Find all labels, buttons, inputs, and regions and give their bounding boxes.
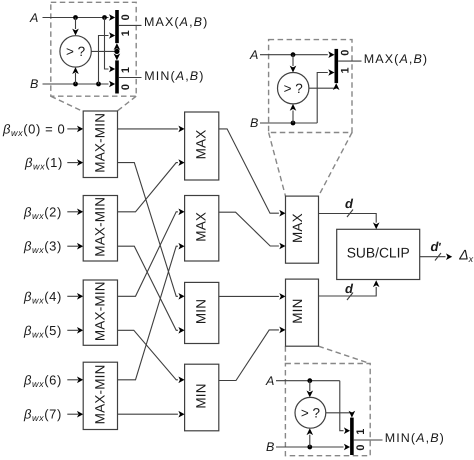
svg-text:MAX: MAX (194, 212, 209, 242)
select wire (TL) (91, 43, 120, 60)
wire A (BR) (276, 380, 340, 382)
block MAX-MIN 1 (83, 111, 117, 178)
funnel TL to MAX-MIN1 (51, 96, 136, 111)
wire MM3 min to MINb in1 (118, 330, 185, 383)
svg-text:> ?: > ? (284, 81, 303, 96)
wire A (TL) (43, 14, 116, 21)
svg-text:SUB/CLIP: SUB/CLIP (347, 245, 410, 261)
wire MIN output (BR) (354, 439, 383, 441)
svg-text:MAX(A,B): MAX(A,B) (144, 15, 208, 29)
svg-text:MIN: MIN (290, 298, 305, 323)
block MIN a (185, 282, 219, 343)
junction dot B1 (TL) (73, 82, 78, 87)
svg-text:A: A (265, 374, 274, 388)
svg-text:MAX-MIN: MAX-MIN (93, 281, 108, 341)
select wire (TR) (309, 83, 340, 90)
wire MAXc out to SUB/CLIP top, bus d (319, 196, 380, 230)
wire A branch to mux (BR) (340, 381, 350, 434)
block MAX b (185, 196, 219, 262)
svg-text:0: 0 (120, 84, 132, 90)
svg-text:d: d (345, 196, 354, 211)
input beta_wx(3) (23, 239, 83, 256)
wire MM4 max to MAXb in2 (118, 243, 185, 380)
dashed detail box TR (269, 40, 352, 133)
svg-text:d: d (345, 281, 354, 296)
comparator circle (BR) (295, 397, 326, 428)
svg-text:MIN: MIN (194, 299, 209, 324)
wire MM1 max to MAXa in1 (118, 126, 185, 133)
svg-text:MIN(A,B): MIN(A,B) (144, 69, 204, 83)
svg-text:0: 0 (339, 50, 351, 56)
mux bar lower (TL) (115, 60, 119, 93)
svg-text:d′: d′ (431, 239, 442, 254)
wire MINb out to MINc in2 (219, 327, 286, 381)
junction dot A1 (TL) (73, 15, 78, 20)
svg-text:> ?: > ? (301, 405, 320, 420)
wire B branch to upper mux (TL) (99, 32, 116, 84)
svg-text:B: B (30, 77, 38, 91)
junction dot A2 (TL) (102, 15, 107, 20)
svg-text:MAX: MAX (194, 130, 209, 160)
wire MM2 max to MAXa in2 (118, 159, 185, 212)
svg-text:MAX(A,B): MAX(A,B) (364, 52, 428, 66)
dashed detail box TL (51, 2, 136, 96)
wire B (TR) (260, 122, 317, 124)
mux bar upper (TL) (115, 10, 119, 43)
mux bar (TR) (335, 49, 339, 83)
svg-text:A: A (29, 11, 38, 25)
mux bar (BR) (350, 418, 354, 455)
funnel TR to MAX col3 (269, 133, 352, 197)
block MIN b (185, 364, 219, 431)
svg-text:1: 1 (355, 429, 367, 435)
input beta_wx(7) (23, 407, 83, 424)
svg-text:B: B (250, 116, 258, 130)
wire B branch to mux (TR) (317, 69, 334, 123)
wire B to comparator (BR) (307, 428, 314, 447)
dashed detail box BR (285, 364, 370, 456)
junction dot A (TR) (291, 52, 296, 57)
svg-text:MAX-MIN: MAX-MIN (93, 113, 108, 173)
svg-text:1: 1 (339, 67, 351, 73)
svg-text:1: 1 (120, 30, 132, 36)
junction dot B (TR) (291, 121, 296, 126)
svg-text:0: 0 (120, 14, 132, 20)
wire MM4 min to MINb in2 (118, 411, 185, 418)
wire A (TR) (260, 51, 335, 58)
wire A to comparator (BR) (307, 381, 314, 398)
block MAX-MIN 2 (83, 196, 117, 262)
junction dot B2 (TL) (96, 82, 101, 87)
wire MAX output (TL) (119, 24, 142, 26)
junction dot A (BR) (307, 378, 312, 383)
block MAX c (286, 196, 319, 263)
svg-text:MIN(A,B): MIN(A,B) (385, 431, 445, 445)
wire MM1 min to MINa in1 (118, 163, 185, 300)
wire A to comparator (TR) (290, 55, 297, 73)
svg-text:A: A (249, 48, 258, 62)
wire B (BR) (276, 444, 350, 451)
wire MM3 max to MAXb in1 (118, 209, 185, 297)
wire MAXb out to MAXc in2 (219, 212, 286, 249)
wire A branch to lower mux (TL) (105, 18, 116, 73)
select wire (BR) (326, 411, 355, 418)
input beta_wx(1) (24, 155, 83, 172)
wire MINa out to MINc in1 (219, 293, 286, 300)
svg-text:0: 0 (355, 444, 367, 450)
svg-text:MAX-MIN: MAX-MIN (93, 197, 108, 257)
input beta_wx(6) (23, 372, 83, 389)
junction dot B (BR) (307, 445, 312, 450)
svg-text:1: 1 (120, 67, 132, 73)
svg-text:> ?: > ? (66, 44, 85, 59)
svg-text:MAX: MAX (290, 213, 305, 243)
svg-text:B: B (266, 440, 274, 454)
wire MAXa out to MAXc in1 (219, 129, 286, 217)
wire SUB/CLIP output d' (420, 239, 453, 261)
input beta_wx(0)=0 (2, 121, 83, 138)
wire B to comparator (TL) (72, 67, 79, 84)
block MAX-MIN 4 (83, 362, 117, 429)
block MAX a (185, 112, 219, 180)
comparator circle (TR) (278, 73, 309, 104)
comparator circle (TL) (60, 36, 91, 67)
input beta_wx(2) (23, 204, 83, 221)
wire B (TL) (43, 81, 116, 88)
block MAX-MIN 3 (83, 280, 117, 345)
input beta_wx(5) (23, 323, 83, 340)
block MIN c (286, 279, 319, 346)
funnel MIN col3 to BR box (285, 346, 369, 363)
input beta_wx(4) (23, 289, 83, 306)
wire MAX output (TR) (338, 60, 361, 62)
wire MIN output (TL) (119, 77, 142, 79)
svg-text:MAX-MIN: MAX-MIN (93, 364, 108, 424)
wire MM2 min to MINa in2 (118, 246, 185, 333)
svg-text:MIN: MIN (194, 383, 209, 408)
wire B to comparator (TR) (290, 104, 297, 123)
wire A to comparator (TL) (72, 18, 79, 36)
wire MINc out to SUB/CLIP bottom, bus d (319, 280, 380, 300)
